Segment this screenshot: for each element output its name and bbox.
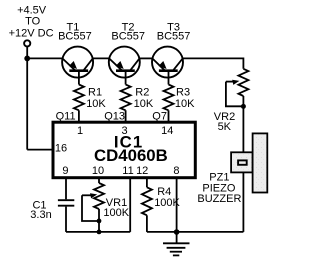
svg-text:10K: 10K [86, 98, 106, 110]
ground [163, 242, 190, 244]
svg-text:Q7: Q7 [152, 110, 167, 122]
piezo PZ1 terminal slot [238, 160, 247, 164]
svg-text:R1: R1 [88, 86, 102, 98]
svg-text:1: 1 [77, 125, 83, 137]
svg-text:R3: R3 [176, 86, 190, 98]
svg-text:CD4060B: CD4060B [94, 146, 168, 165]
transistor T3 BC557 [152, 47, 183, 85]
svg-text:BC557: BC557 [111, 31, 145, 43]
transistor T1 BC557 [62, 47, 93, 85]
resistor R1 [74, 85, 84, 111]
wire pin12 to R4 [146, 178, 148, 188]
wire supply down left side [26, 47, 28, 150]
wire pin16 [27, 149, 53, 151]
node ground junction [174, 229, 180, 235]
svg-text:R2: R2 [135, 86, 149, 98]
wire rail T2-T3 [140, 57, 153, 59]
node VR1 bus junction [97, 230, 102, 235]
wire piezo to ground bus [242, 173, 244, 232]
svg-text:BC557: BC557 [58, 31, 92, 43]
potentiometer VR2 [238, 69, 248, 96]
svg-text:12: 12 [136, 165, 148, 177]
wire supply rail to T1 [27, 57, 62, 59]
svg-text:BUZZER: BUZZER [197, 193, 241, 205]
svg-text:BC557: BC557 [157, 31, 191, 43]
wire rail T3 to VR2 corner [183, 58, 244, 68]
svg-text:5K: 5K [218, 121, 232, 133]
svg-text:Q11: Q11 [56, 110, 76, 122]
wire R4 to ground bus [147, 231, 177, 233]
IC IC1 CD4060B [53, 122, 195, 178]
svg-text:16: 16 [55, 143, 67, 155]
svg-text:14: 14 [161, 125, 173, 137]
resistor R4 [142, 187, 152, 215]
VR1 wiper bracket [82, 195, 99, 221]
svg-text:10K: 10K [175, 98, 195, 110]
wire pin8 down [176, 178, 178, 244]
svg-text:10K: 10K [134, 98, 154, 110]
piezo PZ1 terminal box [231, 152, 252, 172]
VR2 wiper bracket [226, 82, 244, 107]
svg-text:100K: 100K [103, 207, 129, 219]
terminal (supply input) [24, 40, 30, 46]
svg-text:TO: TO [25, 15, 41, 27]
resistor R3 [164, 85, 174, 111]
wire pin9 to C1 [65, 178, 67, 200]
wire C1 to osc bus [65, 207, 67, 232]
svg-text:8: 8 [173, 165, 179, 177]
potentiometer VR1 [94, 183, 104, 209]
svg-text:+12V DC: +12V DC [9, 27, 54, 39]
transistor T2 BC557 [109, 47, 140, 85]
node VR2 bottom [241, 104, 246, 109]
wire pin10 to VR1 [98, 178, 100, 183]
svg-text:11: 11 [122, 165, 133, 177]
wire ground bus to piezo [177, 231, 244, 233]
svg-text:9: 9 [62, 165, 68, 177]
resistor R2 [121, 85, 131, 111]
wire oscillator bus [66, 231, 130, 233]
svg-text:10: 10 [92, 165, 104, 177]
wire pin11 down [129, 178, 131, 232]
VR2 wiper arrow [226, 81, 236, 83]
capacitor C1 [58, 199, 74, 201]
VR1 wiper arrow [82, 194, 92, 196]
svg-text:3.3n: 3.3n [30, 209, 51, 221]
node VR1 bottom [97, 219, 102, 224]
wire VR1 to osc bus [98, 221, 100, 232]
piezo PZ1 body [253, 133, 268, 192]
node supply junction [24, 56, 30, 62]
svg-text:Q13: Q13 [104, 110, 125, 122]
wire rail T1-T2 [93, 57, 109, 59]
